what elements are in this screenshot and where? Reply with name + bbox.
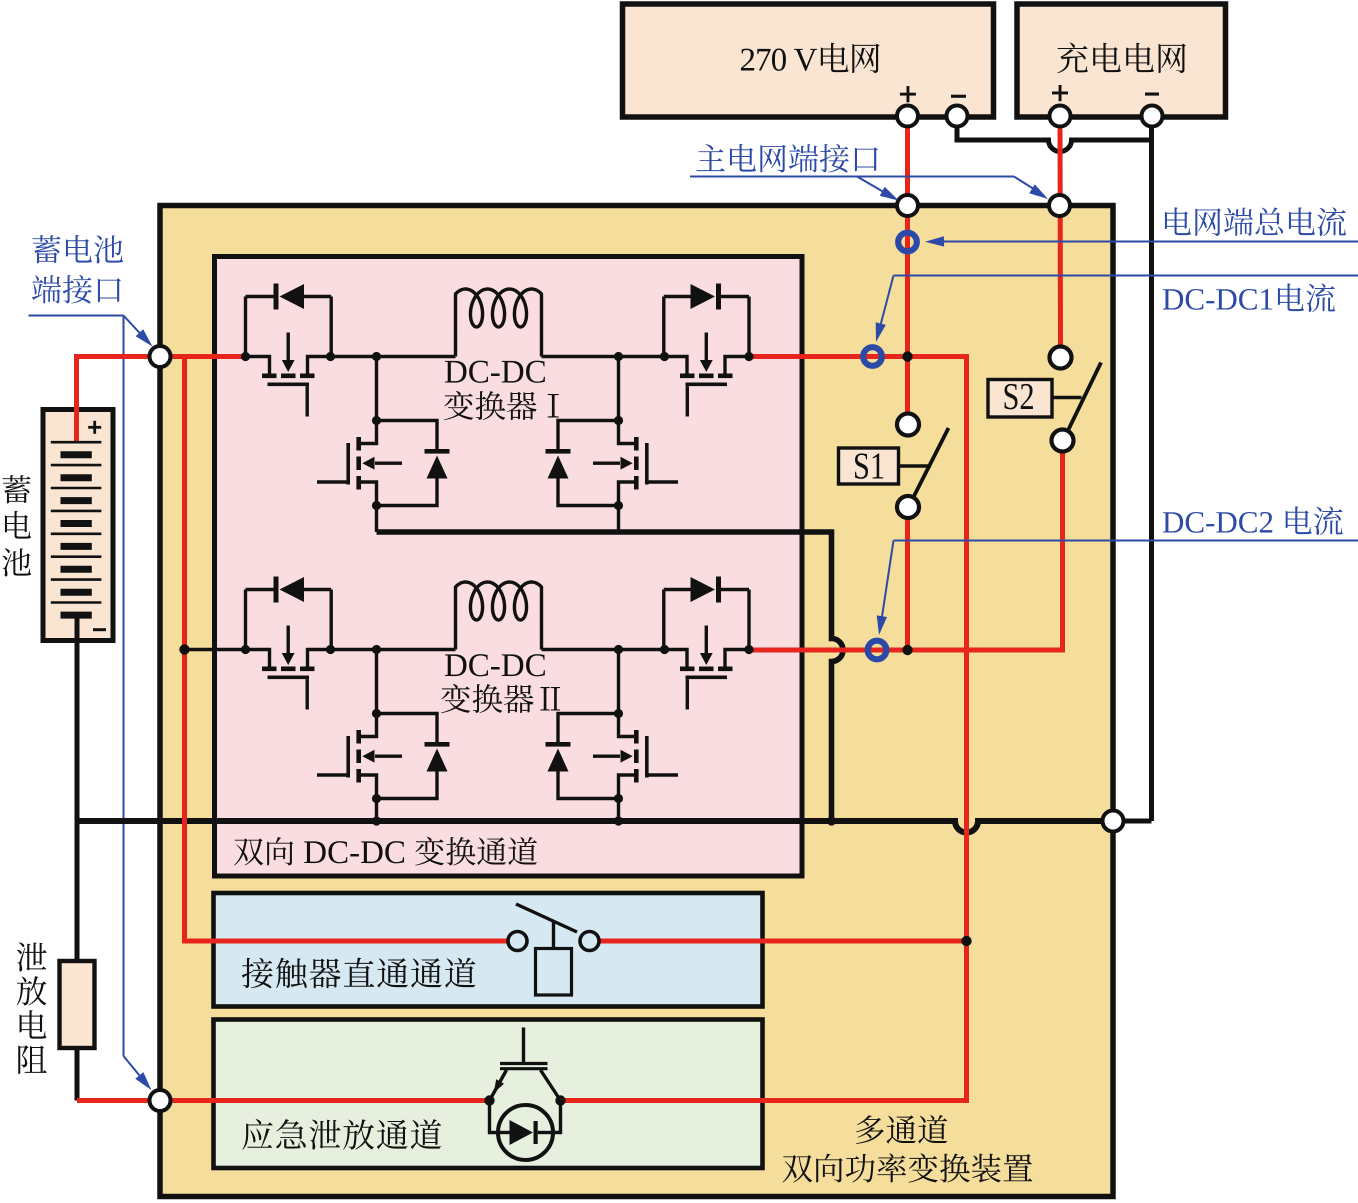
converter II cell bottom node x=376.5 [372, 794, 381, 803]
converter I inductor LI [456, 289, 542, 357]
label: DC-DC1 current (blue) [1163, 289, 1183, 309]
label: battery port (blue, two lines) [32, 235, 60, 263]
label: main grid port (blue) [696, 144, 724, 171]
charging grid source box [1017, 4, 1226, 117]
wire: main negative bus with hop over red riser [77, 821, 1113, 833]
port: charging grid positive on enclosure [1049, 195, 1070, 216]
wire: red contactor output to riser [599, 939, 967, 944]
contactor direct channel box (blue) [214, 893, 763, 1007]
IGBT V1 gate bars [500, 1062, 548, 1065]
terminal: charging grid - [1142, 106, 1163, 127]
DC-DC1 current sensor [863, 347, 882, 366]
node: DC-DC2 line / S1 branch [902, 645, 912, 655]
label: charging grid [1057, 43, 1087, 74]
converter I rail junction node x=664.5 [660, 352, 669, 361]
converter II inductor LII [456, 582, 542, 650]
DC-DC2 current sensor [868, 641, 887, 660]
converter II bottom-left MOSFET QII3 with diode [375, 650, 378, 714]
grid total current sensor [898, 233, 917, 252]
270 V grid source box [623, 4, 994, 117]
converter II rail junction node x=245.5 [241, 645, 250, 654]
IGBT V1 gate lead [522, 1028, 525, 1064]
terminal: charging grid + [1050, 106, 1071, 127]
discharge resistor body [60, 961, 95, 1048]
freewheel diode D1 circle [498, 1105, 553, 1160]
label: battery (vertical) [2, 475, 30, 503]
node: contactor output on red riser [961, 936, 971, 946]
contactor K1 right contact [580, 932, 599, 951]
converter II rail junction node x=330.5 [326, 645, 335, 654]
converter II top-right MOSFET QII2 with antiparallel diode [747, 590, 750, 650]
converter I rail junction node x=376.5 [372, 352, 381, 361]
battery + mark [88, 426, 101, 429]
switch S1 blade [914, 428, 949, 497]
switch S2 blade [1068, 363, 1101, 431]
IGBT V1 emitter arrow [494, 1079, 504, 1093]
switch S2 label box [988, 380, 1052, 418]
converter I bottom-right MOSFET QI4 with diode [617, 357, 620, 421]
battery plates [51, 441, 102, 444]
converter II rail junction node x=376.5 [372, 645, 381, 654]
converter I cell top node x=376.5 [372, 416, 381, 425]
switch S2 label link [1052, 396, 1082, 399]
switch S2 bottom contact [1052, 430, 1074, 452]
label: bidirectional DC-DC channel [234, 838, 263, 865]
wire: resistor bottom to corner [75, 1048, 80, 1101]
converter II rail junction node x=664.5 [660, 645, 669, 654]
wire: black tap from left riser to converter II input [185, 648, 246, 651]
label: emergency discharge channel [242, 1119, 272, 1150]
leader: main grid port label [690, 176, 1014, 178]
label: S2 [1005, 384, 1018, 410]
contactor K1: blade [516, 904, 577, 932]
node: bus/converterII left leg [372, 816, 381, 825]
converter I cell top node x=618.5 [614, 416, 623, 425]
+/- terminal marks [900, 93, 916, 96]
converter I rail junction node x=749 [744, 352, 753, 361]
terminal: 270V grid + [897, 106, 918, 127]
IGBT V1 collector/emitter slants [490, 1070, 507, 1101]
switch S1 bottom contact [897, 496, 919, 518]
converter I top-right MOSFET QI2 with antiparallel diode [747, 297, 750, 357]
wire: red emergency discharge line left part [77, 1098, 490, 1103]
switch S1 label box [839, 448, 899, 484]
battery port circle [150, 346, 171, 367]
wire: red battery positive to converter I input [77, 357, 246, 443]
converter II bottom-right MOSFET QII4 with diode [617, 650, 620, 714]
node: converter II input tap on left riser [179, 644, 189, 654]
label: DC-DC converter I [445, 361, 467, 383]
wire: converter I negative leg down to bus with hop over DC-DC2 red line [377, 532, 844, 821]
battery box [43, 410, 113, 641]
contactor K1: coil box [536, 949, 572, 996]
leader: DC-DC1 current [894, 275, 1358, 277]
label: 270 V grid [741, 49, 754, 71]
leader: battery port label [29, 315, 124, 317]
converter I rail junction node x=330.5 [326, 352, 335, 361]
emergency discharge channel box (green) [214, 1020, 763, 1169]
port: main grid positive on enclosure [897, 195, 918, 216]
wire: charging grid negative vertical down right side [1149, 114, 1154, 821]
discharge port circle [150, 1090, 171, 1111]
IGBT/diode connection stubs [490, 1101, 499, 1133]
wire: red from 270V+ down to S1 [905, 114, 910, 425]
wire: negative into enclosure right circle [1113, 819, 1152, 824]
converter II rail junction node x=749 [744, 645, 753, 654]
converter I cell bottom node x=618.5 [614, 501, 623, 510]
bidirectional DC-DC channel box (pink) [215, 257, 803, 877]
node: grid positive / main red horizontal [902, 351, 912, 361]
wire: red left riser down to contactor [185, 357, 509, 942]
wire: red from charge+ down to S2 [1058, 114, 1064, 358]
label: contactor direct channel [242, 958, 273, 988]
freewheel diode D1 symbol [510, 1120, 534, 1145]
wire: red main horizontal converter I output to riser corner [561, 357, 967, 1101]
negative port circle right [1103, 811, 1124, 832]
wire: red S2 bottom down, corner to DC-DC2 line [751, 441, 1063, 651]
label: multi-channel (bottom right) [856, 1115, 884, 1144]
switch S1 top contact [897, 414, 919, 436]
converter I rail junction node x=245.5 [241, 352, 250, 361]
converter I top-left MOSFET QI1 with antiparallel diode [244, 297, 247, 357]
node: bus/converterII right leg [614, 816, 623, 825]
converter I rail junction node x=618.5 [614, 352, 623, 361]
label: DC-DC converter II [445, 654, 467, 676]
contactor K1 left contact [508, 932, 527, 951]
wire: red S1 bottom to DC-DC2 node [905, 507, 910, 650]
converter II cell bottom node x=618.5 [614, 794, 623, 803]
node: bus/converterI negative leg [827, 816, 836, 825]
converter I rail segments [331, 355, 456, 358]
switch S2 top contact [1050, 347, 1072, 369]
leader: DC-DC2 current [894, 540, 1358, 542]
label: S1 [855, 453, 868, 479]
wire: battery negative vertical [75, 612, 80, 961]
label: DC-DC2 current (blue) [1163, 512, 1183, 532]
converter II rail segments [331, 648, 456, 651]
label: grid total current (blue) [1165, 207, 1191, 235]
converter II top-left MOSFET QII1 with antiparallel diode [244, 590, 247, 650]
node: IGBT emitter on discharge line [555, 1095, 565, 1105]
converter I bottom-left MOSFET QI3 with diode [375, 357, 378, 421]
converter II cell top node x=376.5 [372, 709, 381, 718]
terminal: 270V grid - [947, 106, 968, 127]
converter I cell bottom node x=376.5 [372, 501, 381, 510]
converter II cell top node x=618.5 [614, 709, 623, 718]
wire: 270V negative down/right with hop over charge+ [957, 114, 1152, 152]
contactor K1: armature link [552, 922, 555, 949]
battery - mark [93, 628, 106, 631]
label: discharge resistor (vertical) [17, 942, 47, 971]
multi-channel converter enclosure (yellow) [160, 206, 1113, 1197]
leader: grid total current [941, 241, 1358, 243]
node: IGBT collector on discharge line [484, 1095, 494, 1105]
converter II rail junction node x=618.5 [614, 645, 623, 654]
switch S1 label link [899, 464, 932, 467]
